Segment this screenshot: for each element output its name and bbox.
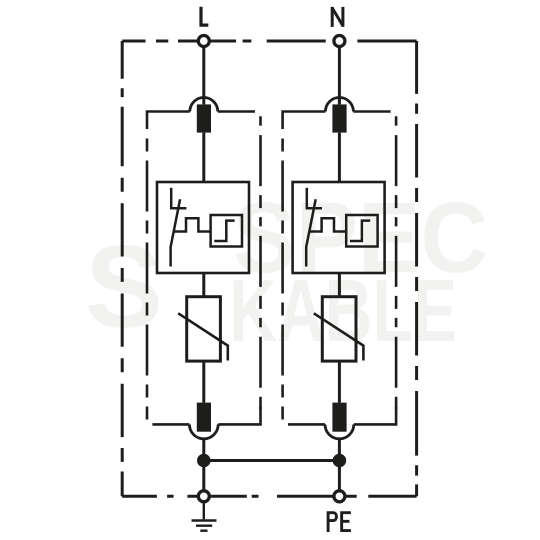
svg-text:S: S — [85, 221, 163, 352]
svg-text:KABLE: KABLE — [229, 261, 457, 360]
